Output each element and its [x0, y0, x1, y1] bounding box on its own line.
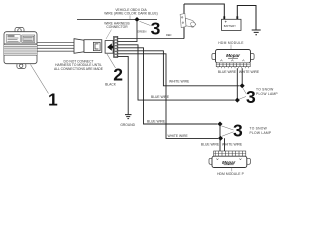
connector pin strip — [114, 36, 118, 57]
svg-text:HDM MODULE P: HDM MODULE P — [217, 172, 245, 176]
HDM module U3 body — [212, 156, 247, 167]
U2 white wire down — [241, 68, 243, 86]
module M1 mounting ear bottom — [17, 63, 26, 69]
module M1 mounting ear top — [15, 28, 24, 34]
svg-text:BLUE WIRE: BLUE WIRE — [151, 95, 170, 99]
wire white1 — [118, 51, 240, 86]
leaders to label 3b — [239, 88, 246, 99]
leader from connector label — [106, 30, 112, 40]
svg-text:TO SNOW: TO SNOW — [250, 126, 268, 130]
tick module to label — [231, 168, 233, 172]
wire white2 — [118, 54, 218, 139]
svg-text:GROUND: GROUND — [120, 123, 135, 127]
leaders to label 3c — [222, 126, 234, 136]
leader line to label 2 — [107, 54, 116, 68]
U3 blue wire up — [219, 124, 221, 151]
U2 pin marks — [220, 60, 244, 62]
svg-text:3: 3 — [233, 120, 243, 140]
svg-text:BLUE WIRE: BLUE WIRE — [147, 119, 166, 123]
module M1 body — [4, 32, 37, 64]
tick from label to wire — [129, 15, 131, 19]
U2 connector strip — [216, 63, 250, 67]
splice node blue2 — [218, 122, 223, 127]
svg-text:WHITE WIRE: WHITE WIRE — [168, 134, 189, 138]
toggle switch on red circuit — [183, 4, 185, 39]
svg-text:2: 2 — [113, 64, 123, 84]
U3 connector strip — [214, 151, 246, 156]
svg-text:TO SNOW: TO SNOW — [256, 88, 274, 92]
svg-text:HDM MODULE: HDM MODULE — [218, 41, 244, 45]
svg-text:BLACK: BLACK — [105, 83, 117, 87]
ground symbol — [125, 115, 132, 119]
wire black — [118, 56, 128, 114]
svg-text:BLUE WIRE: BLUE WIRE — [218, 70, 237, 74]
harness plug tip detail — [93, 42, 100, 50]
U2 blue wire down — [236, 68, 238, 100]
HDM module U2 body — [216, 50, 251, 63]
svg-text:Mopar: Mopar — [226, 53, 240, 58]
svg-text:BATTERY: BATTERY — [224, 24, 236, 28]
harness wires from module M1 to plug — [37, 43, 74, 52]
wire green — [118, 22, 137, 42]
vehicle connector body — [105, 41, 113, 54]
chassis ground symbol — [252, 30, 261, 35]
svg-text:BLUE WIRE: BLUE WIRE — [201, 142, 220, 146]
tick label to module — [230, 45, 232, 50]
wire blue1 — [118, 45, 235, 100]
svg-text:3: 3 — [246, 87, 256, 107]
HDM module U3 ears — [209, 158, 250, 164]
module M1 label right — [22, 35, 35, 42]
svg-text:3: 3 — [151, 18, 161, 38]
battery terminal stubs — [224, 16, 237, 19]
svg-text:WIRE (WIRE COLOR: DARK BLUE): WIRE (WIRE COLOR: DARK BLUE) — [104, 11, 158, 15]
svg-text:WHITE WIRE: WHITE WIRE — [222, 142, 243, 146]
svg-text:WHITE WIRE: WHITE WIRE — [169, 79, 190, 83]
module M1 label left — [6, 35, 20, 43]
svg-text:Mopar: Mopar — [222, 160, 235, 165]
OBD II data wire — [77, 19, 157, 21]
connector arrow — [107, 43, 113, 50]
wire switch to battery — [184, 4, 224, 19]
leader line to label 3a — [140, 21, 151, 25]
splice node white2 — [218, 136, 223, 141]
wire red — [118, 38, 184, 40]
battery negative wire to chassis ground — [237, 6, 256, 31]
HDM module U2 ears — [212, 54, 254, 60]
harness plug body — [84, 40, 102, 53]
U3 pin marks — [216, 158, 241, 160]
module M1 ribbed band — [4, 43, 37, 55]
wire blue2 — [118, 48, 218, 124]
svg-text:RED: RED — [166, 33, 172, 37]
svg-text:GREEN: GREEN — [137, 29, 146, 33]
svg-text:1: 1 — [48, 90, 58, 110]
svg-text:PLOW LAMP: PLOW LAMP — [256, 92, 278, 96]
U2 crimp ticks — [218, 67, 249, 69]
svg-text:PLOW LAMP: PLOW LAMP — [250, 131, 272, 135]
splice node blue1 — [235, 98, 240, 103]
splice node on OBD wire — [135, 17, 140, 22]
leader line to label 1 — [31, 65, 49, 94]
splice node white1 — [240, 83, 245, 88]
svg-text:ALL CONNECTIONS ARE MADE: ALL CONNECTIONS ARE MADE — [54, 67, 104, 71]
battery — [222, 19, 242, 30]
svg-text:CONNECTOR: CONNECTOR — [106, 25, 128, 29]
harness plug shell — [74, 39, 84, 54]
U3 white wire up — [224, 138, 226, 151]
